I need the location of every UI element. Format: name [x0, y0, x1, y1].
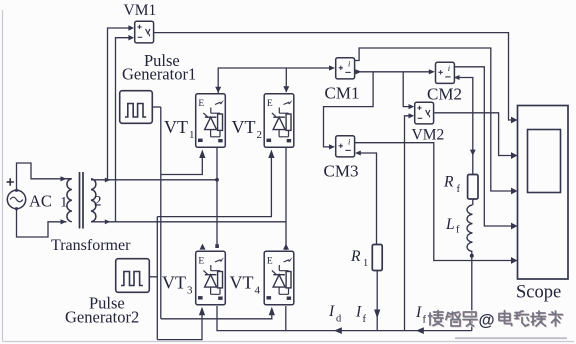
svg-text:@: @	[479, 312, 495, 330]
transformer primary winding 1	[67, 179, 72, 222]
VM1 input arrow top	[128, 25, 134, 31]
thyristor VT1	[196, 94, 226, 148]
junction dot at node B tap	[105, 219, 111, 224]
current meter CM2	[436, 62, 455, 83]
svg-text:I: I	[328, 303, 335, 320]
wire CM1 signal to scope input 3	[355, 48, 511, 191]
current meter CM3	[336, 136, 355, 157]
voltmeter VM2	[415, 102, 434, 124]
wire branch to VT2 gate	[157, 158, 271, 217]
wire VM2 output to scope input 2	[434, 113, 511, 156]
svg-text:f: f	[457, 184, 461, 195]
wire AC bottom loop	[17, 209, 67, 237]
arrow scope input 3	[511, 188, 518, 195]
svg-text:Scope: Scope	[516, 283, 561, 303]
wire AC top loop	[17, 163, 67, 190]
pulse generator 2 block	[116, 259, 150, 293]
svg-text:Generator2: Generator2	[65, 308, 139, 327]
svg-text:1: 1	[189, 129, 195, 141]
wire Rf to Lf	[472, 199, 474, 205]
arrow into VT1 top	[215, 87, 221, 93]
wire VT4 cathode drop	[285, 306, 287, 331]
inductor Lf	[467, 205, 472, 252]
plus label	[7, 178, 14, 185]
watermark underline	[455, 337, 567, 339]
arrow scope input 1	[511, 117, 518, 124]
dot at source bottom	[15, 207, 18, 210]
wire VM2 minus down to bottom bus	[405, 116, 410, 331]
svg-text:1: 1	[363, 258, 368, 269]
current meter CM1	[336, 58, 355, 79]
thyristor VT4	[264, 251, 294, 305]
svg-text:CM3: CM3	[324, 162, 359, 181]
arrow on R1 bottom wire	[374, 310, 380, 319]
arrow into VM2 plus	[409, 104, 415, 109]
wire tap down to VM2 plus	[403, 72, 409, 107]
transformer secondary winding 2	[91, 179, 96, 222]
dot at source top	[15, 189, 18, 192]
svg-text:Transformer: Transformer	[51, 237, 131, 254]
wire Lf down to bottom bus	[471, 252, 473, 331]
arrow into CM3	[329, 144, 335, 149]
svg-text:VT: VT	[164, 117, 188, 137]
svg-text:VM1: VM1	[124, 2, 157, 19]
arrow If on bus	[416, 327, 424, 334]
svg-text:f: f	[456, 225, 460, 236]
arrow into CM3 right side	[355, 151, 361, 156]
svg-text:VT: VT	[230, 273, 254, 293]
resistor R1	[372, 245, 382, 271]
wire tap down to CM3 feed	[324, 72, 374, 147]
arrow into CM2 right side	[454, 75, 460, 80]
arrow into CM1	[329, 65, 335, 70]
wire gate net B vertical	[156, 217, 158, 340]
wire node A	[91, 179, 217, 181]
watermark text (drawn pseudo-glyphs)	[429, 311, 563, 327]
wire branch to VT3 gate	[157, 315, 202, 340]
arrow VT4 gate	[269, 307, 275, 316]
svg-text:I: I	[355, 304, 362, 321]
ac source circle AC	[7, 190, 25, 208]
wire VM1 upper tap	[108, 28, 129, 180]
arrow scope input 5	[511, 257, 518, 264]
dot below Lf	[470, 254, 474, 258]
arrow into primary bottom	[61, 219, 67, 224]
wire branch to VT1 gate	[161, 158, 203, 175]
wire CM2 minus to Rf	[459, 78, 473, 176]
wire VM1 lower tap	[116, 38, 129, 222]
wire node B	[91, 221, 286, 223]
node A vertical VT1 anode to VT3 cathode	[216, 148, 218, 248]
svg-text:R: R	[443, 174, 454, 191]
svg-text:f: f	[423, 315, 427, 326]
wire PG1 output	[152, 106, 161, 108]
junction dot node A	[215, 178, 219, 182]
svg-text:VT: VT	[162, 273, 186, 293]
svg-text:VT: VT	[232, 117, 256, 137]
arrow into CM2	[429, 69, 435, 74]
wire CM1 minus to CM2	[355, 71, 430, 73]
VT2 anode / VT4 cathode vertical	[285, 148, 287, 250]
arrow VT3 gate	[199, 307, 205, 316]
junction dot VM1 tap on node A	[105, 178, 111, 183]
wire gate bus to VT4	[161, 315, 272, 319]
svg-text:1: 1	[60, 195, 68, 211]
wire CM2 signal to scope input 4	[454, 67, 511, 226]
voltmeter VM1	[135, 21, 154, 43]
transformer core	[80, 172, 84, 229]
svg-text:2: 2	[94, 194, 102, 210]
arrow out of CM1	[356, 69, 362, 74]
VM1 input arrow bottom	[128, 35, 134, 41]
arrow scope input 2	[511, 152, 518, 159]
arrow VT4 cathode top	[283, 244, 289, 250]
svg-text:CM1: CM1	[325, 84, 360, 103]
wire VM1 output to scope	[154, 33, 511, 120]
wire CM3 signal to scope input 5	[355, 143, 511, 261]
svg-text:4: 4	[255, 285, 261, 297]
port blob VT3 cathode top	[215, 244, 219, 248]
thyristor VT3	[196, 251, 226, 305]
svg-text:VM2: VM2	[412, 127, 445, 144]
svg-text:I: I	[415, 304, 422, 321]
pulse generator 1 block	[120, 91, 153, 124]
arrow on Rf wire	[470, 150, 476, 156]
resistor Rf	[468, 175, 478, 200]
svg-text:d: d	[336, 314, 342, 325]
arrow VT1 gate	[199, 150, 205, 159]
arrow into primary top	[61, 176, 67, 181]
arrow VT2 gate	[268, 150, 274, 159]
arrow Id on bus	[334, 327, 342, 334]
svg-text:R: R	[350, 248, 361, 265]
wire CM3 minus to R1	[360, 153, 376, 245]
svg-text:L: L	[445, 216, 455, 233]
svg-text:Generator1: Generator1	[122, 65, 196, 84]
arrow into VM2 minus	[409, 113, 415, 118]
wire bottom bus	[217, 306, 472, 331]
svg-text:2: 2	[257, 129, 263, 141]
thyristor VT2	[264, 94, 294, 148]
svg-text:CM2: CM2	[427, 85, 462, 104]
svg-text:f: f	[363, 314, 367, 325]
arrow VT3 top-left port	[200, 244, 206, 250]
wire gate net A vertical	[160, 107, 162, 319]
scope block	[518, 106, 569, 280]
svg-text:3: 3	[187, 285, 193, 297]
scope screen	[528, 130, 561, 193]
wire cathode bus	[218, 68, 330, 93]
arrow scope input 4	[511, 223, 518, 230]
wire R1 down to bottom bus	[376, 271, 378, 331]
wire PG2 output	[149, 276, 157, 278]
arrow into VT2 top	[283, 86, 289, 92]
wire VT2 top drop	[285, 68, 287, 92]
svg-text:AC: AC	[29, 192, 52, 211]
